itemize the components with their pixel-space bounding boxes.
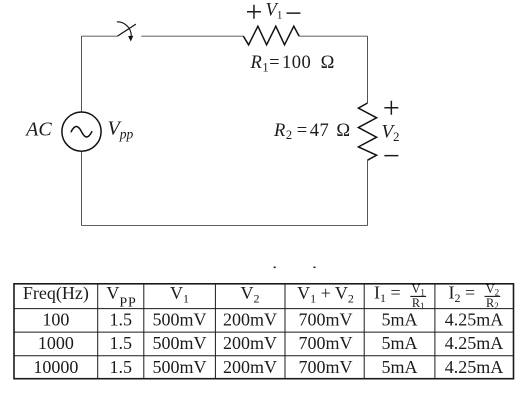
- svg-text:−: −: [285, 0, 302, 30]
- svg-text:R1= 100 Ω: R1= 100 Ω: [250, 53, 335, 74]
- svg-text:V1 + V2: V1 + V2: [297, 283, 354, 306]
- svg-text:5mA: 5mA: [382, 333, 418, 353]
- svg-text:700mV: 700mV: [299, 357, 353, 377]
- svg-text:700mV: 700mV: [299, 309, 353, 329]
- svg-text:5mA: 5mA: [382, 357, 418, 377]
- svg-text:−: −: [383, 139, 400, 172]
- svg-text:V1: V1: [170, 283, 189, 306]
- svg-text:10000: 10000: [33, 357, 78, 377]
- svg-text:500mV: 500mV: [153, 357, 207, 377]
- svg-text:200mV: 200mV: [223, 309, 277, 329]
- svg-text:V2: V2: [241, 283, 260, 306]
- svg-text:AC: AC: [24, 119, 52, 141]
- svg-text:V1: V1: [265, 0, 282, 21]
- svg-text:1000: 1000: [38, 333, 74, 353]
- svg-text:I2 =: I2 =: [449, 283, 476, 306]
- svg-text:500mV: 500mV: [153, 333, 207, 353]
- svg-text:100: 100: [42, 309, 69, 329]
- svg-text:1.5: 1.5: [109, 333, 132, 353]
- svg-text:1.5: 1.5: [109, 357, 132, 377]
- svg-text:200mV: 200mV: [223, 333, 277, 353]
- svg-text:R2 = 47 Ω: R2 = 47 Ω: [273, 121, 351, 142]
- svg-text:700mV: 700mV: [299, 333, 353, 353]
- svg-text:4.25mA: 4.25mA: [445, 309, 504, 329]
- svg-text:1.5: 1.5: [109, 309, 132, 329]
- svg-text:VPP: VPP: [106, 283, 136, 310]
- svg-text:500mV: 500mV: [153, 309, 207, 329]
- svg-text:5mA: 5mA: [382, 309, 418, 329]
- svg-text:+: +: [383, 91, 400, 124]
- svg-text:+: +: [246, 0, 263, 28]
- svg-text:I1 =: I1 =: [374, 283, 401, 306]
- svg-text:4.25mA: 4.25mA: [445, 357, 504, 377]
- svg-text:Vpp: Vpp: [108, 118, 134, 142]
- svg-text:200mV: 200mV: [223, 357, 277, 377]
- svg-text:Freq(Hz): Freq(Hz): [23, 283, 89, 304]
- svg-text:4.25mA: 4.25mA: [445, 333, 504, 353]
